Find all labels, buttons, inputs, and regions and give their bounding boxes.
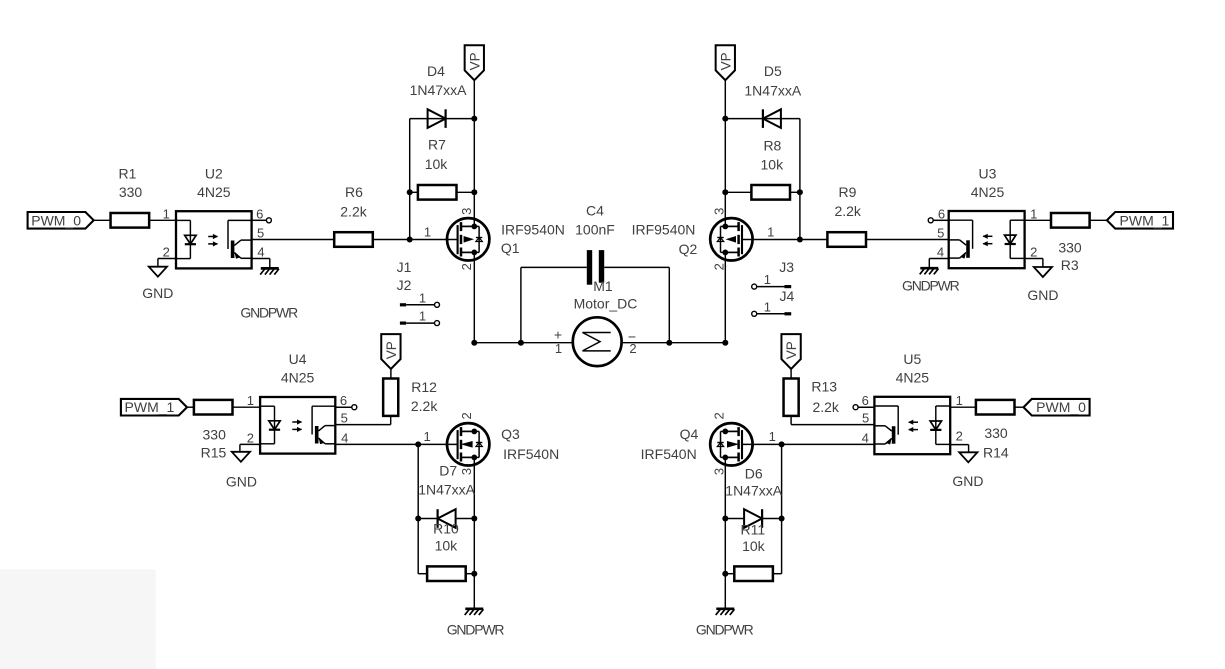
wire PWM_0 to R1 — [94, 219, 111, 221]
svg-text:2: 2 — [163, 244, 170, 259]
transistor Q4 IRF540N — [710, 423, 752, 465]
svg-text:IRF9540N: IRF9540N — [501, 222, 565, 238]
svg-text:1: 1 — [767, 224, 774, 239]
wire Q3 source down — [473, 457, 475, 608]
junction D6 left — [722, 516, 728, 522]
resistor R6 — [334, 232, 373, 247]
svg-text:2.2k: 2.2k — [340, 204, 367, 220]
svg-text:D6: D6 — [745, 466, 763, 482]
svg-text:PWM_1: PWM_1 — [125, 399, 175, 415]
jumper J3 — [752, 284, 757, 289]
resistor R11 — [734, 566, 773, 581]
svg-text:5: 5 — [341, 411, 348, 426]
power GNDPWR (U2) — [261, 267, 279, 270]
svg-text:R15: R15 — [201, 445, 227, 461]
junction R8 right — [797, 189, 803, 195]
svg-text:R7: R7 — [428, 137, 446, 153]
svg-text:1: 1 — [419, 309, 426, 324]
svg-text:1: 1 — [956, 393, 963, 408]
ground GND (U5) — [959, 452, 977, 462]
svg-text:4: 4 — [257, 244, 264, 259]
svg-text:2.2k: 2.2k — [411, 398, 438, 414]
power GNDPWR (Q4) — [716, 607, 734, 610]
wire U4 pin2 to GND — [240, 443, 260, 445]
svg-text:R13: R13 — [811, 379, 837, 395]
svg-text:GND: GND — [226, 474, 257, 490]
junction R7 right — [471, 189, 477, 195]
wire U3 pin1 to R3 — [1025, 219, 1051, 221]
svg-text:2: 2 — [459, 263, 474, 270]
power flag VP (top right) — [716, 45, 735, 80]
ground GND (U3) — [1034, 267, 1052, 277]
svg-text:4: 4 — [862, 430, 869, 445]
junction node D4 branch / gate row — [407, 237, 413, 243]
power GNDPWR (Q3) — [465, 607, 483, 610]
wire R7 right — [457, 191, 475, 193]
wire D6 right — [762, 518, 782, 520]
svg-text:330: 330 — [203, 427, 227, 443]
svg-text:3: 3 — [459, 208, 474, 215]
pin 6 open circle U3 — [933, 219, 949, 221]
capacitor C4 plate left — [587, 250, 592, 285]
power flag VP (top left) — [465, 45, 484, 80]
svg-text:10k: 10k — [761, 157, 785, 173]
svg-text:VP: VP — [384, 341, 399, 359]
wire Q1 drain down to motor row — [473, 252, 475, 342]
wire motor row right — [622, 342, 726, 344]
svg-text:U2: U2 — [205, 166, 223, 182]
svg-text:R14: R14 — [983, 445, 1009, 461]
wire U5 pin5 to R13 — [791, 424, 874, 426]
svg-text:R3: R3 — [1061, 257, 1079, 273]
svg-text:4: 4 — [341, 430, 348, 445]
wire U5 pin2 to GND — [950, 444, 968, 446]
wire R1 to U2 pin1 — [150, 219, 177, 221]
svg-text:1: 1 — [764, 299, 771, 314]
svg-text:U4: U4 — [289, 351, 307, 367]
resistor R13 — [784, 379, 799, 416]
ground GND (U4) — [232, 452, 250, 462]
svg-text:Q3: Q3 — [501, 426, 520, 442]
resistor R10 — [427, 566, 466, 581]
wire VP to R12 — [390, 369, 392, 379]
wire R7 left — [410, 191, 418, 193]
svg-text:GNDPWR: GNDPWR — [902, 278, 960, 294]
wire R3 to PWM_1 — [1090, 219, 1107, 221]
svg-text:D5: D5 — [764, 63, 782, 79]
wire gate junction to R9 — [800, 239, 827, 241]
wire D7 right — [456, 518, 475, 520]
junction motor row right main — [722, 340, 728, 346]
transistor Q2 IRF9540N — [710, 218, 752, 260]
junction motor row left main — [471, 340, 477, 346]
opto-coupler U4 4N25 — [260, 397, 335, 454]
svg-text:PWM_1: PWM_1 — [1120, 212, 1170, 228]
wire D5 row — [725, 118, 800, 120]
junction D6 right — [779, 516, 785, 522]
svg-text:GNDPWR: GNDPWR — [240, 304, 298, 320]
svg-text:R9: R9 — [839, 184, 857, 200]
wire bottom-right branch vertical — [781, 444, 783, 573]
svg-text:4N25: 4N25 — [971, 184, 1005, 200]
wire cap row left — [521, 266, 587, 268]
wire Q2 gate to junction — [742, 239, 800, 241]
wire R11 left — [725, 573, 734, 575]
wire VP down — [473, 80, 475, 118]
wire U4 pin4 to Q3 gate — [335, 443, 457, 445]
svg-text:2: 2 — [711, 412, 726, 419]
wire bottom-left branch vertical — [417, 444, 419, 573]
junction bottom-right branch — [779, 441, 785, 447]
resistor R8 — [751, 185, 790, 200]
svg-text:R10: R10 — [433, 521, 459, 537]
diode D7 — [438, 509, 456, 528]
gray panel bottom-left — [0, 569, 156, 669]
wire R8 right — [789, 191, 800, 193]
svg-text:3: 3 — [711, 468, 726, 475]
svg-text:1N47xxA: 1N47xxA — [744, 83, 801, 99]
junction cap right riser — [666, 340, 672, 346]
wire U3 pin4 to GNDPWR — [929, 258, 948, 260]
svg-text:2: 2 — [459, 412, 474, 419]
svg-text:2: 2 — [1030, 244, 1037, 259]
transistor Q1 IRF9540N — [447, 218, 489, 260]
svg-text:Q4: Q4 — [680, 426, 699, 442]
svg-text:4N25: 4N25 — [281, 370, 315, 386]
wire R9 to U3 pin5 — [866, 239, 949, 241]
wire R8 left — [725, 191, 752, 193]
capacitor C4 plate right — [599, 250, 604, 283]
pin 6 open circle U2 — [252, 219, 267, 221]
wire Q4 gate to junction — [742, 443, 782, 445]
wire Q4 junction to U5 pin4 — [782, 443, 875, 445]
net label PWM_1 left bottom — [121, 399, 187, 416]
net label PWM_0 left — [28, 212, 94, 229]
svg-text:R6: R6 — [345, 184, 363, 200]
svg-text:J3: J3 — [779, 259, 794, 275]
wire cap left riser — [520, 267, 522, 342]
svg-text:100nF: 100nF — [575, 222, 615, 238]
svg-text:C4: C4 — [586, 202, 604, 218]
svg-text:1: 1 — [163, 206, 170, 221]
opto-coupler U3 4N25 — [949, 211, 1025, 268]
svg-text:2.2k: 2.2k — [834, 203, 861, 219]
svg-text:PWM_0: PWM_0 — [1036, 399, 1086, 415]
svg-text:Q1: Q1 — [501, 240, 520, 256]
svg-text:GND: GND — [1027, 287, 1058, 303]
svg-text:1N47xxA: 1N47xxA — [418, 482, 475, 498]
wire U2 pin5 to R6 — [252, 239, 335, 241]
motor M1 Motor_DC — [573, 317, 622, 366]
resistor R3 — [1051, 213, 1090, 228]
ground GND (U2) — [149, 267, 167, 277]
svg-text:10k: 10k — [742, 538, 766, 554]
svg-text:GND: GND — [952, 473, 983, 489]
wire left branch vertical — [409, 119, 411, 240]
junction D4-VP — [471, 116, 477, 122]
svg-text:VP: VP — [718, 52, 733, 70]
diode D5 — [763, 109, 781, 128]
wire Q4 source down — [724, 457, 726, 608]
resistor R12 — [383, 379, 398, 416]
svg-text:1N47xxA: 1N47xxA — [725, 482, 782, 498]
svg-text:1: 1 — [769, 429, 776, 444]
wire Q2 drain down to motor row — [724, 252, 726, 342]
svg-text:2: 2 — [247, 430, 254, 445]
junction R10 right — [471, 571, 477, 577]
svg-text:5: 5 — [257, 225, 264, 240]
svg-text:GND: GND — [142, 285, 173, 301]
wire D6 left — [725, 518, 744, 520]
svg-text:R11: R11 — [740, 522, 765, 538]
wire cap row right — [604, 266, 669, 268]
svg-text:1: 1 — [764, 272, 771, 287]
net label PWM_1 right — [1107, 212, 1173, 229]
svg-text:IRF9540N: IRF9540N — [632, 222, 696, 238]
diode D4 — [428, 109, 446, 128]
junction gate row right — [797, 237, 803, 243]
wire U2 pin4 to GNDPWR — [252, 258, 270, 260]
svg-text:D4: D4 — [427, 63, 445, 79]
wire U4 pin5 to R12 — [335, 424, 390, 426]
svg-text:6: 6 — [938, 206, 945, 221]
wire VP vertical to Q1 — [473, 119, 475, 226]
svg-text:U3: U3 — [979, 166, 997, 182]
svg-text:3: 3 — [711, 208, 726, 215]
resistor R7 — [418, 185, 457, 200]
svg-text:Q2: Q2 — [679, 241, 698, 257]
svg-text:R12: R12 — [411, 379, 437, 395]
svg-text:4: 4 — [937, 244, 944, 259]
svg-text:D7: D7 — [439, 463, 457, 479]
jumper J2 — [400, 322, 406, 325]
svg-text:6: 6 — [340, 393, 347, 408]
svg-text:PWM_0: PWM_0 — [31, 212, 81, 228]
svg-text:IRF540N: IRF540N — [641, 446, 697, 462]
power flag VP (bottom left) — [381, 334, 400, 369]
svg-text:2: 2 — [711, 263, 726, 270]
wire motor row left — [474, 342, 573, 344]
svg-text:5: 5 — [937, 225, 944, 240]
wire D7 left — [418, 518, 437, 520]
svg-text:3: 3 — [459, 468, 474, 475]
svg-text:2: 2 — [956, 428, 963, 443]
junction R7 left — [407, 189, 413, 195]
wire VP down right — [724, 80, 726, 226]
svg-text:1N47xxA: 1N47xxA — [410, 82, 467, 98]
svg-text:2.2k: 2.2k — [812, 399, 839, 415]
junction D7 left — [415, 516, 421, 522]
wire U2 pin2 to GND — [158, 258, 176, 260]
svg-text:10k: 10k — [425, 156, 449, 172]
svg-text:6: 6 — [862, 393, 869, 408]
svg-text:J1: J1 — [397, 259, 412, 275]
svg-text:IRF540N: IRF540N — [503, 446, 559, 462]
wire R6 to Q1 gate — [373, 239, 458, 241]
opto-coupler U5 4N25 — [874, 397, 950, 454]
resistor R9 — [827, 232, 866, 247]
wire D4 row — [410, 118, 475, 120]
jumper J1 — [400, 303, 406, 306]
junction R11 left — [722, 571, 728, 577]
wire U3 pin2 to GND — [1025, 258, 1043, 260]
junction D5-VP — [722, 116, 728, 122]
svg-text:1: 1 — [555, 341, 562, 356]
power GNDPWR (U3) — [920, 267, 938, 270]
transistor Q3 IRF540N — [447, 423, 489, 465]
svg-text:1: 1 — [423, 429, 430, 444]
svg-text:GNDPWR: GNDPWR — [696, 622, 754, 638]
svg-text:330: 330 — [984, 425, 1008, 441]
resistor R14 — [976, 400, 1015, 415]
wire VP to R13 — [790, 369, 792, 379]
svg-text:VP: VP — [784, 341, 799, 359]
wire right branch vertical — [799, 119, 801, 240]
svg-text:5: 5 — [862, 411, 869, 426]
wire PWM_1 to R15 — [187, 406, 194, 408]
svg-text:R8: R8 — [763, 138, 781, 154]
wire cap right riser — [668, 267, 670, 342]
junction cap left riser — [518, 340, 524, 346]
svg-text:330: 330 — [119, 184, 143, 200]
resistor R1 — [111, 213, 150, 228]
wire R14 to PWM_0 — [1015, 406, 1024, 408]
svg-text:J4: J4 — [780, 288, 795, 304]
svg-text:J2: J2 — [397, 277, 412, 293]
pin 6 open circle U5 — [858, 406, 874, 408]
svg-text:6: 6 — [256, 206, 263, 221]
resistor R15 — [194, 400, 233, 415]
junction bottom-left branch — [415, 441, 421, 447]
svg-text:VP: VP — [467, 52, 482, 70]
wire R15 to U4 pin1 — [233, 406, 261, 408]
svg-text:U5: U5 — [903, 351, 921, 367]
svg-text:R1: R1 — [119, 166, 137, 182]
svg-text:1: 1 — [419, 290, 426, 305]
opto-coupler U2 4N25 — [176, 211, 252, 268]
svg-text:1: 1 — [1030, 206, 1037, 221]
power flag VP (bottom right) — [781, 334, 800, 369]
svg-text:10k: 10k — [435, 538, 459, 554]
svg-text:1: 1 — [424, 224, 431, 239]
wire U5 pin1 to R14 — [950, 406, 976, 408]
junction D7 right — [471, 516, 477, 522]
junction R8 left — [722, 189, 728, 195]
svg-text:Motor_DC: Motor_DC — [574, 296, 638, 312]
svg-text:330: 330 — [1058, 239, 1082, 255]
jumper J4 — [752, 311, 757, 316]
wire R10 right — [466, 573, 475, 575]
svg-text:4N25: 4N25 — [197, 184, 231, 200]
svg-text:1: 1 — [247, 393, 254, 408]
svg-text:M1: M1 — [593, 278, 613, 294]
net label PWM_0 right bottom — [1024, 399, 1090, 416]
diode D6 — [744, 509, 762, 528]
pin 6 open circle U4 — [335, 406, 352, 408]
svg-text:4N25: 4N25 — [896, 370, 930, 386]
svg-text:GNDPWR: GNDPWR — [447, 622, 505, 638]
